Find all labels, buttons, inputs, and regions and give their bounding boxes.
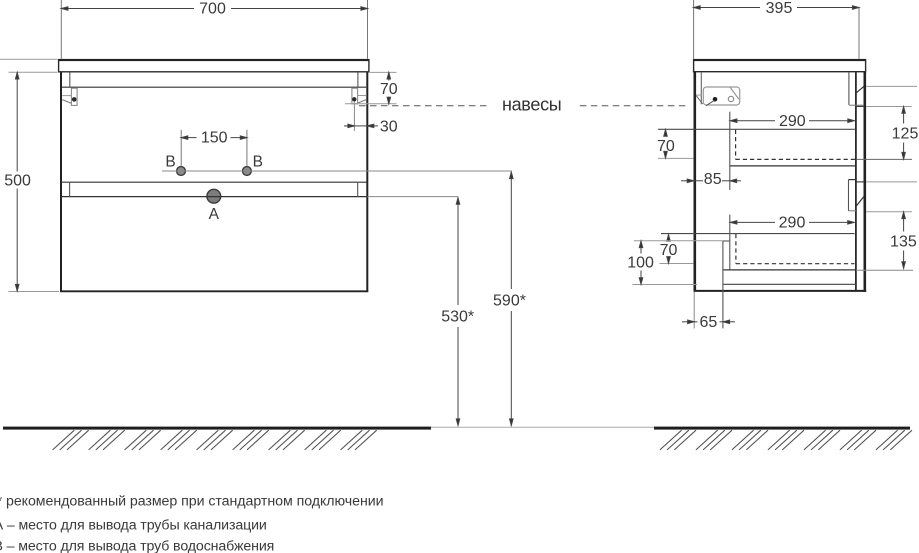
svg-text:навесы: навесы bbox=[502, 95, 561, 115]
side back wall bbox=[695, 72, 702, 292]
floor line left bbox=[3, 427, 431, 430]
node line through A extended bbox=[367, 196, 458, 198]
wall ext below bottom bbox=[693, 292, 695, 329]
lower drawer box top bbox=[661, 233, 855, 235]
lower front chamfer diagonal bbox=[856, 196, 864, 206]
svg-text:65: 65 bbox=[700, 314, 718, 331]
svg-text:700: 700 bbox=[199, 1, 226, 18]
countertop (front view) bbox=[59, 59, 369, 72]
lower drawer box bottom bbox=[723, 269, 855, 271]
svg-text:70: 70 bbox=[380, 81, 398, 98]
dimension 135 bbox=[856, 182, 917, 270]
upper front chamfer diagonal bbox=[857, 86, 865, 92]
extension 290 upper / 85 bbox=[729, 112, 731, 190]
SECTION: floor bbox=[3, 427, 912, 450]
svg-text:590*: 590* bbox=[493, 293, 526, 310]
dimension 500 bbox=[0, 59, 59, 291]
dimension 30 bbox=[344, 118, 398, 135]
dimension 530* bbox=[441, 198, 474, 426]
dimension 125 bbox=[857, 86, 918, 159]
hinge bracket (side view) bbox=[696, 87, 740, 106]
top rail line bbox=[62, 73, 366, 88]
floor hatching right bbox=[660, 430, 912, 450]
lower drawer dashed bottom bbox=[736, 263, 855, 265]
SECTION: legend bbox=[0, 493, 384, 553]
svg-text:* рекомендованный размер при с: * рекомендованный размер при стандартном… bbox=[0, 493, 384, 509]
dimension 700 bbox=[61, 0, 367, 59]
svg-text:290: 290 bbox=[779, 214, 806, 231]
dimension 70 front right bbox=[345, 72, 398, 103]
svg-text:30: 30 bbox=[380, 118, 398, 135]
dimension 65 bbox=[682, 314, 735, 331]
dashed hinge level line bbox=[359, 105, 689, 107]
hinge hanger left (front view) bbox=[62, 88, 77, 105]
node line through B holes bbox=[162, 170, 511, 172]
svg-text:70: 70 bbox=[657, 138, 675, 155]
upper grip recess bbox=[849, 72, 864, 105]
dimension 100 bbox=[627, 241, 723, 285]
svg-text:70: 70 bbox=[660, 242, 678, 259]
hole B right bbox=[243, 167, 252, 176]
svg-text:В – место для вывода труб водо: В – место для вывода труб водоснабжения bbox=[0, 539, 274, 553]
svg-text:100: 100 bbox=[627, 255, 654, 272]
lower grip recess bbox=[849, 180, 857, 211]
hole B left bbox=[177, 167, 186, 176]
hinge hanger right (front view) bbox=[352, 88, 367, 131]
dimension 290 upper bbox=[730, 113, 854, 130]
svg-text:A: A bbox=[209, 206, 220, 223]
bottom panel line bbox=[723, 283, 856, 285]
drawer fronts face line bbox=[863, 72, 866, 292]
dimension 70 side lower bbox=[660, 235, 694, 264]
dimension 70 side upper bbox=[657, 130, 694, 159]
SECTION: side view bbox=[658, 59, 866, 328]
upper drawer box bottom bbox=[730, 165, 856, 167]
lower drawer dashed side bbox=[735, 234, 737, 264]
carcass front edge line bbox=[855, 72, 857, 290]
countertop (side view) bbox=[694, 59, 866, 72]
upper drawer dashed bottom bbox=[736, 158, 855, 160]
svg-text:B: B bbox=[165, 153, 175, 170]
svg-text:290: 290 bbox=[779, 113, 806, 130]
floor line right bbox=[654, 427, 910, 430]
SECTION: front view bbox=[59, 59, 689, 291]
svg-text:395: 395 bbox=[766, 0, 793, 17]
floor line connector bbox=[431, 426, 654, 428]
SECTION: dims bbox=[0, 0, 918, 426]
svg-text:125: 125 bbox=[892, 126, 919, 143]
dimension 290 lower bbox=[730, 214, 854, 231]
dimension 85 bbox=[681, 171, 741, 188]
dimension 395 bbox=[694, 0, 859, 59]
svg-text:500: 500 bbox=[4, 172, 31, 189]
svg-text:530*: 530* bbox=[441, 309, 474, 326]
cabinet body (front view) bbox=[60, 72, 368, 291]
floor hatching left bbox=[53, 430, 377, 450]
lower drawer back vertical bbox=[729, 215, 731, 270]
svg-text:А – место для вывода трубы кан: А – место для вывода трубы канализации bbox=[0, 517, 267, 533]
drawer divider band bbox=[61, 182, 367, 196]
upper drawer dashed side bbox=[735, 130, 737, 160]
upper drawer box top bbox=[658, 128, 855, 130]
slide L vertical bbox=[723, 241, 730, 328]
hole A bbox=[207, 189, 221, 203]
dimension 150 bbox=[181, 130, 247, 167]
lower front top edge bbox=[856, 181, 864, 183]
svg-text:85: 85 bbox=[704, 171, 722, 188]
svg-text:135: 135 bbox=[890, 234, 917, 251]
svg-text:B: B bbox=[253, 154, 263, 171]
side bottom bbox=[694, 290, 867, 292]
svg-text:150: 150 bbox=[201, 130, 228, 147]
upper front bottom edge bbox=[856, 105, 864, 107]
dimension 590* bbox=[493, 172, 526, 426]
